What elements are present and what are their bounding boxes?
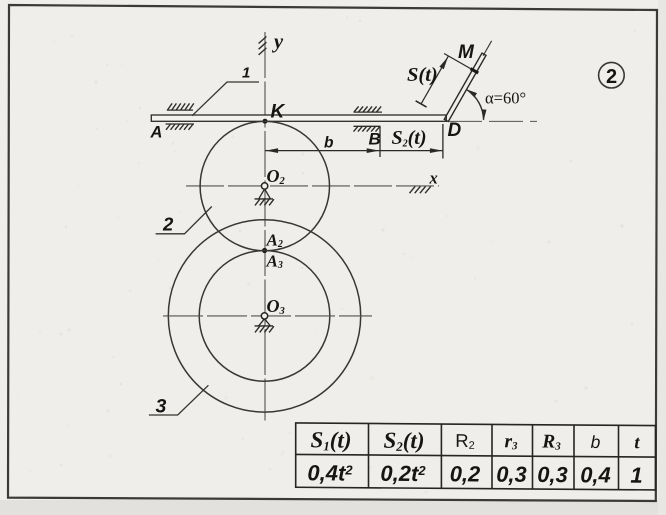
svg-text:M: M xyxy=(458,42,475,63)
svg-text:3: 3 xyxy=(156,396,167,418)
circle 3 inner xyxy=(199,251,330,382)
svg-text:S2(t): S2(t) xyxy=(392,127,427,150)
bar 1 (rack AD) xyxy=(151,115,446,121)
data table (slightly skewed like the scan) xyxy=(296,423,656,490)
svg-text:0,3: 0,3 xyxy=(537,462,568,487)
rod with slider M (rotated 29.7deg about D) xyxy=(415,23,496,123)
tick at B xyxy=(379,127,381,158)
circle 3 outer xyxy=(168,220,360,412)
svg-text:S1(t): S1(t) xyxy=(310,427,351,453)
upper-right guide support xyxy=(354,111,383,113)
pivot O2 : support triangle xyxy=(259,189,271,199)
pivot O2 : pin circle xyxy=(261,183,267,189)
y-axis fixing ticks xyxy=(259,37,267,55)
svg-text:B: B xyxy=(369,130,381,149)
svg-text:α=60°: α=60° xyxy=(485,89,526,108)
dimension arrows b and S2(t) xyxy=(265,150,379,152)
svg-text:b: b xyxy=(591,432,601,452)
node A2/A3 contact dot xyxy=(262,248,267,253)
leader + label 2 xyxy=(156,207,212,234)
lower guide support at A xyxy=(166,123,195,125)
svg-text:K: K xyxy=(271,102,286,123)
svg-text:t: t xyxy=(634,433,640,453)
leader line for body 1 xyxy=(192,82,259,116)
pivot O3 : pin circle xyxy=(261,313,267,319)
wire: x-axis / centerline of O2 xyxy=(186,185,439,187)
svg-text:0,3: 0,3 xyxy=(496,462,527,487)
svg-text:0,4: 0,4 xyxy=(580,462,611,487)
svg-text:D: D xyxy=(448,120,462,141)
circle 2 (gear 2) xyxy=(200,121,329,250)
svg-text:b: b xyxy=(324,135,334,152)
angle arc alpha=60 xyxy=(467,90,483,120)
pivot O3 : support triangle xyxy=(259,319,271,326)
leader + label 3 xyxy=(149,385,209,415)
svg-text:2: 2 xyxy=(162,214,174,235)
svg-text:A: A xyxy=(150,123,163,141)
svg-text:2: 2 xyxy=(606,66,617,88)
y-axis (vertical centerline) xyxy=(264,32,266,421)
tick at D xyxy=(442,124,444,159)
hatching under x-axis end xyxy=(410,186,431,193)
problem number circle 2 xyxy=(599,62,625,88)
node K xyxy=(263,119,268,124)
upper-left guide support xyxy=(167,109,193,111)
reference line right of D xyxy=(448,120,537,122)
svg-text:S2(t): S2(t) xyxy=(383,428,424,454)
svg-text:1: 1 xyxy=(242,65,250,82)
svg-text:x: x xyxy=(429,169,438,188)
lower guide support at B xyxy=(354,125,381,127)
centerline of O3 xyxy=(163,315,372,317)
svg-text:0,2: 0,2 xyxy=(450,461,481,486)
svg-text:1: 1 xyxy=(630,463,642,488)
svg-text:S(t): S(t) xyxy=(407,64,438,86)
